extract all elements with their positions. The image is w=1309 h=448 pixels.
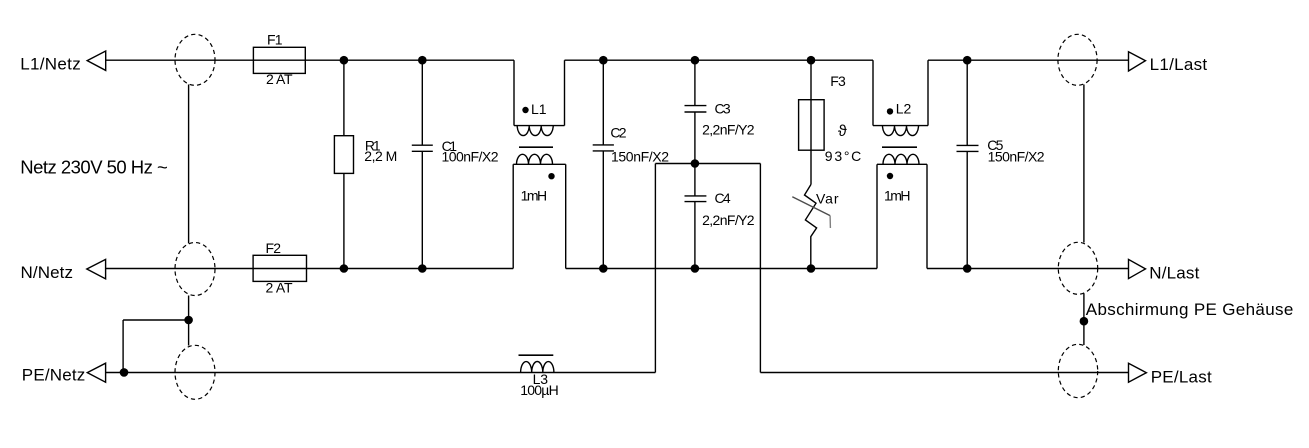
svg-text:2 AT: 2 AT	[266, 71, 293, 87]
svg-text:L1/Last: L1/Last	[1150, 55, 1208, 74]
wire N rail left	[106, 268, 514, 270]
choke L2 top winding	[872, 60, 874, 125]
svg-text:L2: L2	[896, 100, 912, 116]
wire L1 top rail middle	[565, 59, 874, 61]
wire Y-node right drop to PE	[759, 164, 761, 373]
connector ellipse L1/Last	[1058, 34, 1097, 85]
svg-text:C4: C4	[715, 190, 731, 206]
svg-text:2,2 M: 2,2 M	[364, 148, 397, 164]
svg-text:150nF/X2: 150nF/X2	[611, 149, 669, 165]
thermal fuse F3	[810, 60, 812, 184]
wire shield left vertical upper	[188, 85, 190, 244]
choke L2 core	[882, 146, 917, 148]
connector ellipse L1/Netz	[175, 34, 215, 85]
phase dot L2 bottom	[887, 173, 893, 179]
wire Y-node middle horizontal	[655, 163, 760, 165]
choke L2 bottom winding	[877, 163, 927, 165]
svg-text:C3: C3	[715, 101, 731, 117]
svg-text:2 AT: 2 AT	[266, 280, 293, 296]
svg-text:F2: F2	[266, 240, 282, 256]
wire shield left branch vertical	[122, 320, 124, 373]
node dot top C2	[599, 56, 608, 65]
phase dot L1 bottom	[548, 173, 554, 179]
varistor Var	[805, 184, 817, 268]
inductor L3 core	[519, 354, 554, 356]
svg-text:100nF/X2: 100nF/X2	[442, 149, 499, 165]
node dot N R1	[340, 264, 349, 273]
node dot N C2	[599, 264, 608, 273]
terminal arrow N/Netz	[87, 259, 106, 279]
wire N rail right	[927, 268, 1128, 270]
node dot N C1	[418, 264, 427, 273]
svg-text:F3: F3	[830, 73, 846, 89]
svg-text:93°C: 93°C	[825, 148, 862, 164]
wire N rail middle	[566, 268, 877, 270]
choke L1 bottom winding	[513, 163, 566, 165]
wire L1 top rail left	[106, 59, 514, 61]
svg-text:Var: Var	[816, 191, 839, 207]
capacitor C3	[694, 60, 696, 105]
node dot top C1	[418, 56, 427, 65]
node dot N varistor	[807, 264, 816, 273]
svg-text:C2: C2	[610, 125, 626, 141]
svg-text:1mH: 1mH	[884, 187, 911, 203]
connector ellipse PE/Netz	[175, 345, 215, 399]
svg-text:2,2nF/Y2: 2,2nF/Y2	[702, 212, 755, 228]
node dot N C4	[691, 264, 700, 273]
svg-text:Netz 230V 50 Hz ~: Netz 230V 50 Hz ~	[20, 157, 168, 178]
capacitor C1	[421, 60, 423, 145]
connector ellipse N/Netz	[175, 243, 215, 296]
node dot N C5	[963, 264, 972, 273]
wire PE rail right	[760, 372, 1128, 374]
inductor L3	[521, 362, 554, 373]
svg-text:ϑ: ϑ	[838, 123, 847, 140]
connector ellipse PE/Last	[1058, 344, 1097, 397]
choke L1 core	[519, 146, 553, 148]
wire shield right vertical lower	[1083, 294, 1085, 346]
svg-text:1mH: 1mH	[521, 187, 548, 203]
svg-text:N/Netz: N/Netz	[21, 263, 74, 282]
terminal arrow PE/Last	[1129, 363, 1147, 382]
wire shield left branch horizontal	[123, 319, 189, 321]
svg-text:F1: F1	[267, 32, 283, 48]
svg-text:100µH: 100µH	[520, 382, 559, 398]
node dot PE left	[120, 368, 129, 377]
svg-text:2,2nF/Y2: 2,2nF/Y2	[702, 122, 755, 138]
terminal arrow PE/Netz	[87, 363, 105, 382]
wire shield left vertical lower	[188, 296, 190, 346]
node dot top C5	[963, 56, 972, 65]
fuse F2	[253, 255, 306, 281]
capacitor C5	[966, 60, 968, 145]
node dot Y mid	[691, 159, 700, 168]
svg-text:N/Last: N/Last	[1149, 264, 1199, 283]
node dot top F3	[807, 56, 816, 65]
wire PE rail left	[106, 372, 656, 374]
phase dot L2 top	[887, 108, 893, 114]
resistor R1	[343, 60, 345, 136]
phase dot L1 top	[522, 107, 528, 113]
svg-text:L1: L1	[531, 101, 547, 117]
terminal arrow N/Last	[1129, 259, 1146, 278]
terminal arrow L1/Netz	[87, 51, 106, 70]
svg-text:PE/Netz: PE/Netz	[22, 366, 86, 385]
wire shield right vertical upper	[1083, 85, 1085, 243]
svg-text:L1/Netz: L1/Netz	[20, 55, 80, 74]
node dot top C3	[691, 56, 700, 65]
node dot shield right	[1080, 317, 1089, 326]
wire Y-node left drop to PE	[654, 164, 656, 373]
wire L1 top rail right	[928, 59, 1128, 61]
capacitor C4	[694, 164, 696, 196]
svg-text:Abschirmung PE Gehäuse: Abschirmung PE Gehäuse	[1086, 300, 1294, 319]
node dot shield left	[184, 316, 193, 325]
connector ellipse N/Last	[1058, 242, 1097, 294]
terminal arrow L1/Last	[1129, 52, 1146, 71]
svg-text:150nF/X2: 150nF/X2	[988, 149, 1045, 165]
node dot top R1	[340, 56, 349, 65]
choke L1 top winding	[513, 60, 515, 125]
capacitor C2	[602, 60, 604, 145]
fuse F1	[253, 47, 305, 73]
svg-text:PE/Last: PE/Last	[1151, 367, 1212, 386]
